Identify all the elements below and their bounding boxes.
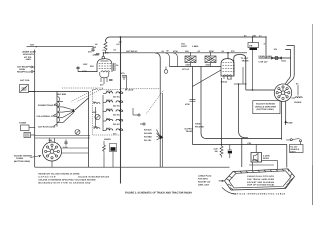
tuning gang link dashed [147, 90, 164, 114]
label under X boxes [185, 63, 211, 66]
wire main vertical center [120, 36, 121, 183]
lamp symbol [272, 56, 282, 59]
label twist pair [195, 123, 204, 129]
svg-text:1ST AF: 1ST AF [182, 68, 190, 71]
svg-text:ANT: ANT [30, 44, 35, 47]
label ant-rcvr conn [38, 124, 57, 128]
svg-text:470K: 470K [173, 50, 178, 53]
svg-text:UNDER DASH: UNDER DASH [22, 51, 36, 54]
socket S1 pins [276, 86, 290, 100]
label tube V2 [221, 78, 233, 84]
wire vib down [252, 50, 253, 91]
svg-text:262 KC: 262 KC [113, 105, 120, 108]
wire bus A+ [105, 52, 247, 53]
wire vertical x201 to switch line [201, 67, 282, 139]
capacitor C5 [121, 72, 126, 80]
socket S2 pins [45, 144, 60, 159]
tube V2 envelope [221, 59, 234, 76]
wire socket S1 left [246, 89, 274, 91]
IF transformer T4 [106, 117, 123, 126]
label near arch [241, 57, 250, 63]
svg-text:SOCKET SEE DIAGRAM: SOCKET SEE DIAGRAM [247, 181, 274, 184]
cable label block [198, 174, 224, 186]
tube V2 cathode arcs [223, 75, 232, 76]
svg-text:TRANS: TRANS [186, 130, 194, 133]
svg-text:TO OUT: TO OUT [241, 57, 249, 60]
svg-text:262 KC: 262 KC [113, 96, 120, 99]
wire tuner twisted pair [35, 136, 90, 138]
svg-text:SOCKET ON: SOCKET ON [198, 180, 211, 183]
battery box [290, 142, 304, 154]
svg-text:CONV: CONV [103, 52, 110, 55]
IF transformer T3 [106, 108, 123, 117]
capacitor box X2 [205, 52, 216, 62]
label socket S2 [14, 154, 41, 163]
svg-text:AVC: AVC [106, 127, 111, 130]
svg-text:VOL: VOL [181, 43, 186, 46]
label volume control [181, 43, 199, 49]
svg-text:SOCKET MARKED: SOCKET MARKED [256, 102, 276, 105]
svg-text:AMPL UNIT: AMPL UNIT [198, 183, 210, 186]
wire v2 plate junction [234, 83, 248, 137]
svg-text:RA YEL: RA YEL [144, 139, 152, 142]
svg-text:TUNER: TUNER [19, 122, 27, 125]
svg-text:(BOTTOM VIEW): (BOTTOM VIEW) [257, 108, 274, 111]
cable ribbon outline [225, 169, 295, 190]
wire left enclosure vertical [34, 50, 36, 168]
capacitor pair left of V1 [76, 66, 79, 72]
dashed chassis diagonal 2 [77, 89, 103, 102]
label row top right [244, 35, 262, 38]
IF winding leads [103, 94, 123, 131]
svg-text:MEASURED WITH VTVM TO CHASSIS: MEASURED WITH VTVM TO CHASSIS GND [38, 181, 90, 184]
svg-text:VIB: VIB [49, 139, 53, 142]
terminal circle B [140, 123, 145, 125]
socket S2 spokes [47, 146, 57, 155]
svg-text:THE TRUNK AMPLIFIER: THE TRUNK AMPLIFIER [247, 178, 275, 181]
wire right vertical to bus [286, 145, 288, 168]
svg-text:3RD IF: 3RD IF [106, 108, 113, 111]
wire speaker to cable stub 2 [262, 161, 278, 170]
wire tuner box links [29, 128, 35, 136]
svg-text:VIB: VIB [249, 44, 253, 47]
wire inner arch lead [242, 67, 244, 84]
svg-text:SOCKET MARKED: SOCKET MARKED [14, 154, 33, 157]
capacitor near socket S2 [63, 140, 68, 149]
tube V1 envelope [97, 59, 112, 72]
wire socket S1 down 1 [281, 101, 283, 139]
dashed chassis diagonal 1 [71, 89, 97, 102]
note text block left [38, 172, 109, 184]
svg-text:RA BLK: RA BLK [144, 129, 152, 132]
svg-text:SPKR MTG: SPKR MTG [23, 53, 34, 56]
svg-text:RECEPTACLE: RECEPTACLE [17, 71, 31, 74]
note box under-dash mount [22, 51, 36, 62]
wire bus B+ top [106, 37, 267, 42]
wire bus right extension [249, 164, 274, 166]
label speaker [263, 154, 270, 160]
svg-text:CHOKE: CHOKE [294, 101, 302, 104]
electrolytic C10 [103, 138, 117, 153]
svg-text:1ST IF: 1ST IF [106, 90, 113, 93]
svg-text:2ND IF: 2ND IF [106, 99, 113, 102]
terminal circle A [133, 108, 140, 116]
wire speaker top [255, 145, 257, 153]
svg-text:OUTPUT: OUTPUT [185, 128, 194, 131]
svg-text:10K: 10K [185, 50, 189, 53]
wire electrolytic to bus [104, 152, 113, 168]
label socket S1 [253, 101, 280, 114]
cable ribbon hatching [227, 169, 293, 190]
IF transformer T1 [106, 90, 123, 99]
svg-text:.0047: .0047 [205, 63, 211, 66]
label receptacle 2 [17, 71, 35, 74]
capacitor on x192 [185, 100, 196, 107]
coil glyph B [92, 111, 100, 119]
svg-text:PANEL LAMP: PANEL LAMP [259, 55, 273, 58]
wire output horizontal [193, 144, 287, 146]
screen bypass cap right of V1 [114, 63, 120, 71]
svg-text:.0047: .0047 [185, 63, 191, 66]
svg-text:VALUES IN MICROFARADS: VALUES IN MICROFARADS [78, 175, 110, 178]
label grid caps [102, 48, 117, 52]
choke L2 [292, 97, 303, 104]
svg-text:(BOTTOM VIEW): (BOTTOM VIEW) [14, 160, 30, 163]
svg-text:CAP: CAP [63, 146, 68, 149]
scan fold artifact line right [312, 24, 314, 205]
label row above A+ bus [161, 50, 235, 53]
wire socket S2 top pair [50, 138, 55, 143]
svg-text:SPKR: SPKR [263, 157, 269, 160]
label resistor R1 [88, 43, 98, 53]
wire tap converge [63, 107, 74, 123]
svg-text:262 KC: 262 KC [113, 114, 120, 117]
wire antenna lead [27, 46, 94, 47]
svg-text:OUT: OUT [228, 78, 233, 81]
wire bracket inner [285, 50, 290, 84]
svg-text:RA RED: RA RED [144, 136, 152, 139]
svg-text:BATT: BATT [290, 150, 296, 153]
svg-text:50MFD: 50MFD [104, 138, 111, 141]
cable bundle labels [144, 129, 153, 143]
tube V1 base [100, 71, 110, 78]
svg-text:22K: 22K [90, 65, 94, 68]
wire a+ vertical [265, 36, 266, 58]
wire lamp line [259, 57, 291, 59]
label power trans [38, 104, 59, 107]
socket S1 circle [274, 84, 292, 102]
electrolytic under vibrator [250, 48, 258, 50]
wire grid V1 [78, 71, 98, 73]
svg-text:FITS INTO: FITS INTO [198, 177, 208, 180]
jack circle [164, 67, 168, 74]
wire socket S2 right pair [61, 148, 88, 153]
svg-text:47K: 47K [88, 50, 92, 53]
IF transformer T2 [106, 99, 123, 108]
IF transformer T5 [106, 127, 123, 136]
wire stub x242 [241, 138, 243, 167]
svg-text:12V: 12V [274, 48, 278, 51]
wire bottom bus [35, 166, 230, 168]
switch SW1 [286, 139, 302, 142]
label B+ arrow [296, 82, 299, 95]
svg-text:2.2K: 2.2K [214, 147, 219, 150]
svg-text:OSC: OSC [83, 63, 88, 66]
wire tube V2 top [227, 52, 229, 59]
label tube V1 [93, 52, 110, 57]
wire sw vertical [252, 36, 253, 42]
label ant receptacle [17, 66, 35, 72]
wire lower horizontal row [170, 63, 222, 67]
tube socket S2 circle [43, 142, 62, 161]
wire B minus vertical [88, 92, 90, 168]
svg-text:ANT RELAY: ANT RELAY [126, 50, 138, 53]
wire stub top row a [165, 53, 170, 67]
svg-text:VEHICLE INTERCONNECTING CABLE: VEHICLE INTERCONNECTING CABLE [233, 192, 286, 195]
label collateral conn [37, 114, 58, 118]
svg-text:AMPL: AMPL [26, 58, 33, 61]
svg-text:SPKR: SPKR [252, 159, 258, 162]
wire bracket outer [287, 46, 295, 85]
svg-text:PR WIRE: PR WIRE [195, 125, 204, 128]
svg-text:TWIST: TWIST [195, 123, 202, 126]
dashed chassis boundary horizontal [62, 87, 104, 89]
cable bottom label [222, 188, 286, 196]
svg-text:COIL: COIL [93, 126, 99, 129]
cable bundle arrow [157, 130, 164, 141]
electrolytic C20 [228, 145, 232, 159]
label output trans [185, 128, 194, 134]
svg-text:6 OR 12V: 6 OR 12V [259, 60, 269, 63]
trimmer capacitor C1 [20, 85, 35, 93]
svg-text:4 OHM: 4 OHM [263, 154, 270, 157]
wire socket S1 down 2 [285, 101, 287, 125]
tube V1 top cap [102, 52, 105, 59]
label panel lamp [259, 55, 273, 63]
svg-text:RESISTOR VALUES SHOWN IN OHMS: RESISTOR VALUES SHOWN IN OHMS [38, 172, 80, 175]
svg-text:ANT COIL: ANT COIL [20, 79, 30, 82]
wire osc vertical [126, 75, 128, 90]
svg-text:WHT BRN: WHT BRN [57, 93, 67, 96]
svg-text:1 MEG: 1 MEG [192, 45, 199, 48]
wire stub top row b [173, 53, 178, 67]
vibrator box [248, 43, 259, 48]
cable ribbon text [247, 175, 275, 186]
antenna coupling caps [91, 47, 99, 55]
tube V1 grids [99, 61, 111, 69]
speaker box [251, 153, 262, 163]
capacitor below V1 [100, 80, 113, 87]
svg-text:FUSE: FUSE [287, 121, 293, 124]
label osc components [82, 63, 94, 73]
wire arch over V2 [234, 55, 246, 91]
svg-text:TUNER: TUNER [16, 157, 24, 160]
wire vertical pair left [155, 53, 162, 167]
wire antenna feed horizontal [29, 91, 89, 93]
socket S1 spokes [279, 88, 287, 96]
svg-text:(TOP OF OUTSIDE PAGE): (TOP OF OUTSIDE PAGE) [247, 184, 274, 187]
osc trimmer circle [75, 130, 80, 135]
svg-text:CAPACITOR: CAPACITOR [38, 175, 55, 178]
svg-text:UNLESS OTHERWISE SPECIFIED VOL: UNLESS OTHERWISE SPECIFIED VOLTAGES SHOW… [38, 178, 95, 181]
tuner connector box upper [21, 125, 30, 131]
svg-text:470K: 470K [185, 103, 190, 106]
svg-text:12BE6: 12BE6 [93, 53, 100, 56]
coil glyph C [93, 126, 100, 129]
svg-text:B- LEAD: B- LEAD [125, 89, 134, 92]
tuner connector box lower [24, 133, 31, 138]
svg-text:VEHICLE AMPLIFIER: VEHICLE AMPLIFIER [255, 105, 277, 108]
wire speaker to cable stub 1 [252, 162, 254, 171]
svg-text:DIAL: DIAL [282, 60, 288, 63]
coil wiper arrow [72, 98, 89, 112]
resistor R1 [104, 42, 107, 53]
svg-text:ANT RCVR CONN: ANT RCVR CONN [38, 125, 56, 128]
svg-text:262 KC: 262 KC [113, 123, 120, 126]
IF assembly dashed border [93, 90, 121, 136]
svg-text:220K: 220K [209, 50, 214, 53]
svg-text:PRI: PRI [248, 142, 252, 145]
dashed chassis boundary right [120, 88, 160, 90]
wire socket S2 bottom [51, 161, 53, 167]
svg-text:1W: 1W [215, 150, 218, 153]
diagonal grid wire [193, 70, 222, 87]
tube V2 grids [223, 63, 235, 72]
svg-text:TRANS: TRANS [242, 59, 250, 62]
svg-text:RA GRN: RA GRN [144, 132, 153, 135]
coil L1 multi-tap [57, 92, 63, 127]
svg-text:FIGURE 2. SCHEMATIC OF TRUCK: FIGURE 2. SCHEMATIC OF TRUCK AND TRACTOR… [125, 192, 192, 195]
svg-text:OSC: OSC [92, 111, 97, 114]
fuse arrow [285, 120, 294, 124]
tube V1 pin wires [101, 78, 107, 84]
svg-text:POWER TRANS WHT: POWER TRANS WHT [38, 104, 59, 107]
wire IF column verticals [96, 95, 104, 131]
svg-text:CABLE PLUG FITS INTO: CABLE PLUG FITS INTO [247, 175, 274, 178]
label on center vertical [117, 42, 122, 46]
wire vertical x192 [192, 67, 194, 145]
tube V2 pin wires [224, 76, 231, 79]
svg-text:CABLE PLUG: CABLE PLUG [198, 174, 212, 177]
capacitor box X1 [185, 52, 196, 62]
coil glyph A [93, 101, 100, 104]
resistor R9 [214, 78, 224, 158]
svg-text:CONT: CONT [181, 45, 188, 48]
